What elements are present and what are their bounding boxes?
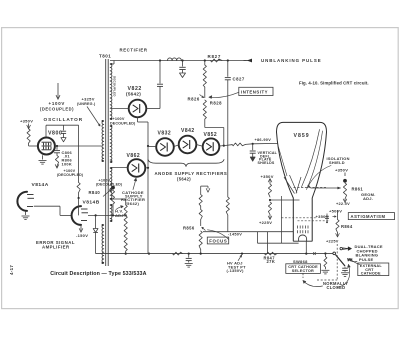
svg-text:+325V: +325V (82, 96, 95, 101)
svg-text:V842: V842 (181, 128, 195, 134)
svg-text:100K: 100K (62, 162, 73, 167)
svg-text:R826: R826 (188, 96, 200, 101)
svg-text:-150V: -150V (76, 233, 88, 238)
svg-text:DECOUPLED: DECOUPLED (113, 76, 117, 97)
svg-text:Fig. 4-10. Simplified CRT circ: Fig. 4-10. Simplified CRT circuit. (299, 80, 369, 85)
svg-text:SHIELD: SHIELD (329, 160, 345, 165)
svg-text:V814A: V814A (32, 182, 49, 188)
svg-text:(UNREG.): (UNREG.) (77, 102, 96, 106)
svg-text:R856: R856 (183, 226, 195, 231)
svg-text:T801: T801 (99, 54, 111, 59)
svg-text:V800: V800 (48, 131, 62, 137)
svg-text:(DECOUPLED): (DECOUPLED) (40, 106, 74, 111)
svg-text:FOCUS: FOCUS (209, 238, 227, 243)
svg-text:INTENSITY: INTENSITY (241, 90, 268, 95)
svg-text:V862: V862 (127, 153, 141, 159)
svg-text:DECOUPLED): DECOUPLED) (110, 122, 136, 126)
svg-text:4-17: 4-17 (9, 265, 14, 275)
svg-text:Circuit Description — Type 533: Circuit Description — Type 533/533A (50, 271, 146, 277)
svg-text:R827: R827 (208, 54, 222, 59)
svg-text:+500V: +500V (329, 209, 342, 214)
svg-text:+22.5V: +22.5V (336, 201, 350, 206)
svg-text:+350V: +350V (20, 119, 33, 124)
svg-text:V852: V852 (204, 132, 218, 138)
svg-text:SW868: SW868 (293, 259, 308, 264)
svg-text:+350V: +350V (335, 168, 348, 173)
svg-text:C827: C827 (233, 77, 245, 82)
svg-text:(DECOUPLED): (DECOUPLED) (96, 182, 123, 186)
svg-text:V859: V859 (294, 133, 310, 139)
svg-text:+350V: +350V (261, 174, 274, 179)
svg-text:R864: R864 (341, 224, 353, 229)
svg-text:PULSE: PULSE (359, 257, 373, 262)
svg-text:R828: R828 (210, 100, 222, 105)
svg-text:(-1350V): (-1350V) (227, 268, 245, 273)
svg-text:+225V: +225V (326, 238, 339, 243)
svg-text:ADJ.: ADJ. (363, 196, 373, 201)
svg-text:+225V: +225V (259, 220, 272, 225)
svg-text:+100V: +100V (113, 117, 125, 121)
svg-text:(5642): (5642) (126, 92, 141, 97)
svg-text:V814B: V814B (83, 200, 100, 206)
svg-text:OSCILLATOR: OSCILLATOR (44, 117, 84, 122)
svg-text:(DECOUPLED): (DECOUPLED) (57, 173, 84, 177)
svg-text:SHIELDS: SHIELDS (258, 161, 275, 165)
svg-text:AMPLIFIER: AMPLIFIER (42, 244, 70, 249)
svg-text:SELECTOR: SELECTOR (292, 269, 314, 273)
svg-text:ASTIGMATISM: ASTIGMATISM (351, 214, 386, 219)
svg-text:UNBLANKING PULSE: UNBLANKING PULSE (261, 58, 322, 63)
svg-text:ADJ.: ADJ. (115, 213, 125, 218)
svg-text:+86-90V: +86-90V (255, 137, 272, 142)
svg-text:R840: R840 (89, 190, 101, 195)
svg-text:27K: 27K (267, 259, 276, 264)
svg-text:V832: V832 (158, 131, 172, 137)
svg-text:ANODE SUPPLY RECTIFIERS: ANODE SUPPLY RECTIFIERS (155, 171, 228, 176)
svg-text:CATHODE: CATHODE (361, 272, 381, 276)
svg-text:(5642): (5642) (126, 201, 140, 206)
svg-text:+350V: +350V (316, 214, 329, 219)
svg-text:-1450V: -1450V (228, 231, 242, 236)
svg-text:RECTIFIER: RECTIFIER (120, 47, 148, 52)
svg-text:(5642): (5642) (177, 176, 191, 181)
